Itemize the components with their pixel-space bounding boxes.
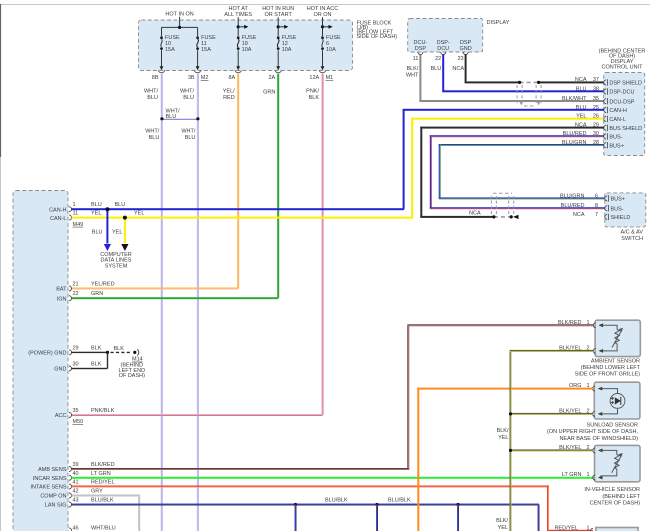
wire WHT/BLU from 8B (vertical)	[144, 74, 163, 531]
wire YEL CAN-L riser to DCU	[411, 118, 604, 219]
wire ORG sunload	[417, 388, 594, 531]
svg-text:BLK/: BLK/	[406, 66, 418, 72]
svg-text:22: 22	[73, 291, 79, 297]
pin 35 ACC	[55, 408, 115, 425]
svg-text:PNK/: PNK/	[306, 89, 319, 95]
svg-text:PNK/BLK: PNK/BLK	[91, 408, 115, 414]
svg-text:BLU: BLU	[92, 229, 103, 235]
svg-text:WHT/: WHT/	[180, 89, 195, 95]
sunload pin 1	[569, 383, 602, 391]
node HOT IN ACC OR ON	[307, 6, 338, 36]
svg-text:YEL: YEL	[134, 211, 144, 217]
wire YEL CAN-L	[72, 211, 413, 220]
in-vehicle thermistor	[600, 450, 622, 476]
fuse 6 10A	[309, 35, 341, 81]
svg-text:NCA: NCA	[573, 212, 585, 218]
svg-text:12A: 12A	[309, 75, 319, 81]
svg-text:7: 7	[595, 212, 598, 218]
wire LT GRN INCAR SENS to in-vehicle sensor	[72, 477, 594, 479]
svg-text:10A: 10A	[326, 47, 336, 53]
svg-text:BUS-: BUS-	[609, 135, 622, 141]
svg-text:BLK: BLK	[91, 362, 102, 368]
shield loop (A/C AV pair)	[491, 193, 513, 214]
svg-text:23: 23	[457, 56, 463, 62]
svg-text:42: 42	[73, 489, 79, 495]
svg-text:(ON UPPER RIGHT SIDE OF DASH,: (ON UPPER RIGHT SIDE OF DASH,	[547, 429, 638, 435]
svg-text:DCU-: DCU-	[414, 40, 428, 46]
svg-text:BLU/BLK: BLU/BLK	[388, 498, 411, 504]
pin DSP-DCU 22	[435, 40, 450, 62]
DCU pin 28 BUS+	[562, 140, 624, 149]
svg-text:21: 21	[73, 282, 79, 288]
svg-text:SIDE OF DASH): SIDE OF DASH)	[357, 34, 398, 40]
svg-text:1: 1	[586, 472, 589, 478]
svg-text:(BEHIND LEFT: (BEHIND LEFT	[602, 494, 640, 500]
svg-text:LT GRN: LT GRN	[91, 471, 111, 477]
svg-text:NEAR BASE OF WINDSHIELD): NEAR BASE OF WINDSHIELD)	[559, 436, 638, 442]
svg-text:BLU: BLU	[185, 135, 196, 141]
svg-text:INTAKE SENS: INTAKE SENS	[31, 485, 67, 491]
svg-text:WHT/: WHT/	[145, 129, 160, 135]
svg-text:10A: 10A	[282, 47, 292, 53]
svg-text:40: 40	[73, 471, 79, 477]
svg-text:DSP-DCU: DSP-DCU	[609, 90, 634, 96]
svg-text:1: 1	[73, 202, 76, 208]
pin DSP GND 23	[457, 40, 471, 62]
top border line	[0, 4, 650, 6]
DCU pin 37 DSP SHIELD	[575, 77, 642, 86]
svg-text:6: 6	[326, 41, 329, 47]
svg-text:2A: 2A	[268, 75, 275, 81]
svg-text:GRN: GRN	[91, 291, 103, 297]
svg-text:BLU: BLU	[149, 135, 160, 141]
ground M14	[119, 349, 146, 379]
svg-text:BLU: BLU	[115, 202, 126, 208]
pin 41 INTAKE SENS	[31, 480, 115, 491]
svg-text:RED/YEL: RED/YEL	[91, 480, 115, 486]
fuse 10 15A	[152, 35, 180, 81]
svg-text:BLK/WHT: BLK/WHT	[562, 96, 587, 102]
svg-text:3B: 3B	[188, 75, 195, 81]
svg-text:22: 22	[435, 56, 441, 62]
svg-text:WHT: WHT	[406, 73, 419, 79]
wire YEL drop to computer data lines	[112, 216, 129, 251]
svg-text:NCA: NCA	[469, 210, 481, 216]
svg-text:YEL: YEL	[498, 525, 508, 531]
left border light continuation	[0, 157, 1, 531]
svg-text:SWITCH: SWITCH	[621, 236, 643, 242]
DISPLAY CONTROL UNIT box	[604, 73, 645, 156]
svg-text:11: 11	[413, 56, 419, 62]
pin 43 LAN SIG	[45, 498, 114, 509]
svg-text:GND: GND	[54, 367, 66, 373]
svg-text:BLK: BLK	[309, 95, 320, 101]
svg-text:15A: 15A	[201, 47, 211, 53]
svg-text:DSP-: DSP-	[437, 40, 450, 46]
svg-text:HOT IN ON: HOT IN ON	[165, 12, 193, 18]
svg-text:BLU: BLU	[430, 66, 441, 72]
svg-text:DSP: DSP	[415, 46, 427, 52]
svg-text:DSP: DSP	[460, 40, 472, 46]
svg-text:BLK/: BLK/	[497, 428, 509, 434]
svg-text:DCU: DCU	[437, 46, 449, 52]
svg-text:A/C & AV: A/C & AV	[620, 229, 643, 235]
svg-text:CAN-H: CAN-H	[49, 207, 66, 213]
DCU pin 25 CAN-H	[576, 105, 627, 114]
svg-text:ALL TIMES: ALL TIMES	[224, 12, 252, 18]
DISPLAY box	[408, 19, 510, 53]
svg-text:GND: GND	[459, 46, 471, 52]
svg-text:12: 12	[282, 41, 288, 47]
svg-text:BUS+: BUS+	[609, 143, 624, 149]
node HOT IN ON	[162, 12, 198, 37]
svg-text:DSP SHIELD: DSP SHIELD	[609, 81, 642, 87]
svg-text:IGN: IGN	[57, 296, 67, 302]
ambient pin 1	[558, 320, 603, 328]
svg-text:YEL: YEL	[498, 435, 508, 441]
svg-text:38: 38	[593, 86, 599, 92]
svg-text:BLU: BLU	[166, 114, 177, 120]
DCU caption	[599, 48, 646, 70]
svg-text:DCU-DSP: DCU-DSP	[609, 99, 634, 105]
svg-text:35: 35	[73, 408, 79, 414]
svg-text:1: 1	[586, 526, 589, 531]
svg-text:41: 41	[73, 480, 79, 486]
pin 1 CAN-H connector	[49, 202, 75, 213]
svg-text:BLU: BLU	[147, 95, 158, 101]
intake pin 1	[554, 526, 593, 531]
wire NCA BUS SHIELD hairpin	[420, 127, 603, 218]
wire BLK pin29 to splice	[72, 346, 125, 354]
node HOT AT ALL TIMES	[224, 6, 252, 36]
DCU pin 26 CAN-L	[576, 114, 626, 123]
svg-text:BLK: BLK	[114, 346, 125, 352]
svg-text:BUS+: BUS+	[611, 197, 626, 203]
svg-text:37: 37	[593, 77, 599, 83]
svg-text:1: 1	[586, 320, 589, 326]
svg-text:CONTROL UNIT: CONTROL UNIT	[601, 64, 643, 70]
DCU pin 35 DCU-DSP	[562, 96, 635, 105]
svg-text:BLU/RED: BLU/RED	[561, 203, 585, 209]
svg-text:8A: 8A	[228, 75, 235, 81]
in-vehicle pin 2	[559, 445, 602, 453]
svg-text:BLU: BLU	[183, 95, 194, 101]
fuse 19 10A	[228, 35, 256, 81]
svg-text:OR ON: OR ON	[313, 12, 331, 18]
A/C AV pin 8 BUS-	[561, 203, 624, 212]
wire NCA DSP GND shield drain	[452, 55, 603, 85]
fuse block (J/B) box	[139, 20, 353, 71]
svg-text:BLU/GRN: BLU/GRN	[560, 193, 584, 199]
wire BLK/YEL to sunload pin 2 + junction	[509, 412, 593, 415]
pin 30 GND	[54, 362, 101, 373]
DCU pin 30 BUS-	[563, 131, 623, 140]
svg-text:OR START: OR START	[265, 12, 293, 18]
svg-text:BLK/RED: BLK/RED	[558, 320, 582, 326]
ambient sensor caption	[575, 358, 641, 377]
pin 29 (POWER) GND	[28, 345, 101, 356]
svg-text:30: 30	[73, 362, 79, 368]
svg-text:(BEHIND LOWER LEFT: (BEHIND LOWER LEFT	[581, 365, 641, 371]
sunload photodiode	[601, 389, 625, 414]
A/C AV pin 6 BUS+	[560, 193, 625, 202]
wire BLU/RED BUS- hairpin	[430, 135, 605, 209]
svg-text:BLK/RED: BLK/RED	[91, 462, 115, 468]
svg-text:RED: RED	[223, 95, 235, 101]
svg-text:(POWER) GND: (POWER) GND	[28, 351, 66, 357]
svg-text:LT GRN: LT GRN	[562, 472, 582, 478]
svg-text:BAT: BAT	[56, 287, 67, 293]
svg-text:YEL: YEL	[91, 211, 101, 217]
svg-text:WHT/: WHT/	[144, 89, 159, 95]
junction + stub LAN SIG 1	[294, 503, 297, 531]
svg-text:BLU/BLK: BLU/BLK	[91, 498, 114, 504]
pin DCU-DSP 11	[413, 40, 428, 62]
svg-text:FUSE: FUSE	[201, 35, 216, 41]
svg-text:INCAR SENS: INCAR SENS	[33, 476, 67, 482]
svg-text:FUSE: FUSE	[165, 35, 180, 41]
in-vehicle sensor box	[595, 445, 641, 481]
pin 46 WHT/BLU (cut at bottom)	[69, 526, 116, 531]
wire GRN from 2A to IGN	[72, 74, 280, 300]
svg-text:YEL: YEL	[112, 229, 122, 235]
ambient sensor box	[595, 320, 640, 356]
svg-text:LAN SIG: LAN SIG	[45, 503, 67, 509]
wire BLK dashed to ground M14	[111, 351, 132, 353]
svg-text:WHT/: WHT/	[181, 129, 196, 135]
ambient pin 2	[559, 345, 603, 353]
wire RED/YEL INTAKE SENS to intake sensor	[72, 486, 594, 531]
left border bar	[0, 4, 1, 157]
sunload caption	[547, 422, 638, 441]
svg-text:FUSE: FUSE	[326, 35, 341, 41]
wire BLU/GRN BUS+ hairpin	[439, 144, 605, 199]
wire BLU/BLK LAN SIG	[72, 498, 540, 531]
svg-text:CAN-L: CAN-L	[609, 117, 626, 123]
wire YEL/RED from 8A to BAT	[72, 74, 240, 290]
svg-text:39: 39	[73, 462, 79, 468]
wire WHT/BLU from 3B (vertical)	[180, 74, 199, 531]
svg-text:BLU/BLK: BLU/BLK	[325, 498, 348, 504]
sunload pin 2	[559, 408, 602, 416]
svg-text:GRY: GRY	[91, 489, 103, 495]
svg-text:8: 8	[595, 203, 598, 209]
node COMPUTER DATA LINES SYSTEM	[100, 252, 132, 269]
shield drain NCA to A/C AV switch	[492, 215, 518, 219]
wire BLU CAN-H	[72, 202, 405, 211]
pin 40 INCAR SENS	[33, 471, 111, 482]
junction + stub LAN SIG 2	[375, 503, 378, 531]
svg-text:CAN-H: CAN-H	[609, 108, 626, 114]
DCU pin 29 BUS SHIELD	[575, 123, 642, 132]
svg-text:YEL/: YEL/	[223, 89, 235, 95]
pin 21 BAT	[56, 282, 114, 293]
pin 42 COMP ON	[40, 489, 103, 500]
svg-text:NCA: NCA	[575, 77, 587, 83]
svg-text:M2: M2	[201, 75, 209, 81]
svg-text:6: 6	[595, 193, 598, 199]
in-vehicle caption	[584, 487, 640, 506]
in-vehicle pin 1	[562, 472, 603, 480]
svg-text:M1: M1	[326, 75, 334, 81]
svg-text:SYSTEM: SYSTEM	[105, 263, 128, 269]
svg-text:10A: 10A	[242, 47, 252, 53]
svg-text:GRN: GRN	[263, 90, 275, 96]
svg-text:11: 11	[201, 41, 207, 47]
svg-text:BLU: BLU	[91, 202, 102, 208]
svg-text:11: 11	[73, 211, 79, 217]
wire PNK/BLK from 12A to ACC	[72, 74, 324, 417]
wire BLK/YEL to in-vehicle pin 2 + junction	[509, 449, 593, 452]
svg-text:CENTER OF DASH): CENTER OF DASH)	[590, 501, 641, 507]
svg-text:SIDE OF FRONT GRILLE): SIDE OF FRONT GRILLE)	[575, 372, 640, 378]
svg-text:WHT/BLU: WHT/BLU	[91, 526, 116, 531]
fuse block caption	[357, 20, 398, 40]
svg-text:COMP ON: COMP ON	[40, 494, 66, 500]
svg-text:19: 19	[242, 41, 248, 47]
svg-text:CAN-L: CAN-L	[50, 216, 67, 222]
svg-text:15A: 15A	[165, 47, 175, 53]
svg-text:AMB SENS: AMB SENS	[38, 467, 67, 473]
wire BLU drop to computer data lines	[92, 207, 111, 251]
svg-text:43: 43	[73, 498, 79, 504]
wire BLK pin30 up to splice	[72, 352, 109, 369]
fuse 11 15A	[188, 35, 216, 81]
wire WHT/BLU crossbar + junctions	[145, 108, 199, 141]
fuse 12 10A	[268, 35, 296, 81]
wire BLK/YEL trunk vertical	[496, 351, 511, 531]
svg-text:BUS-: BUS-	[611, 206, 624, 212]
svg-text:SHIELD: SHIELD	[611, 215, 631, 221]
A/C & AV SWITCH box	[605, 193, 646, 242]
svg-text:DISPLAY: DISPLAY	[487, 20, 510, 26]
svg-text:FUSE: FUSE	[282, 35, 297, 41]
wire BLU DSP-DCU	[430, 55, 603, 93]
svg-text:29: 29	[73, 345, 79, 351]
svg-text:OF DASH): OF DASH)	[119, 373, 145, 379]
svg-text:FUSE: FUSE	[242, 35, 257, 41]
svg-text:10: 10	[165, 41, 171, 47]
svg-text:BLK: BLK	[91, 345, 102, 351]
svg-text:BUS SHIELD: BUS SHIELD	[609, 126, 642, 132]
ambient thermistor	[601, 325, 623, 351]
wire GRY COMP ON	[72, 495, 141, 531]
wire BLK/YEL to ambient pin 2	[510, 350, 594, 352]
wire BLK/WHT DCU-DSP	[406, 55, 604, 103]
svg-text:NCA: NCA	[452, 66, 464, 72]
DCU pin 38 DSP-DCU	[576, 86, 635, 95]
svg-text:SUNLOAD SENSOR: SUNLOAD SENSOR	[587, 422, 638, 428]
A/C AV pin 7 SHIELD	[573, 212, 631, 221]
svg-text:RED/YEL: RED/YEL	[554, 526, 578, 531]
svg-text:8B: 8B	[152, 75, 159, 81]
wire BLK/RED AMB SENS to ambient sensor	[72, 324, 594, 470]
pin 39 AMB SENS	[38, 462, 115, 473]
svg-text:YEL/RED: YEL/RED	[91, 282, 115, 288]
svg-text:BLU: BLU	[576, 86, 587, 92]
sunload sensor box	[594, 382, 640, 419]
pin 11 CAN-L connector	[50, 211, 83, 228]
A/C auto amp box (left, cut off)	[13, 191, 68, 531]
svg-text:AMBIENT SENSOR: AMBIENT SENSOR	[591, 358, 640, 364]
shield loop (display pair)	[517, 85, 541, 106]
svg-text:IN-VEHICLE SENSOR: IN-VEHICLE SENSOR	[584, 487, 640, 493]
node HOT IN RUN OR START	[262, 6, 294, 36]
svg-text:M49: M49	[73, 222, 84, 228]
pin 22 IGN	[57, 291, 104, 302]
intake sensor box (cut at bottom)	[596, 528, 638, 531]
junction + stub LAN SIG 3	[456, 503, 459, 531]
svg-text:35: 35	[593, 96, 599, 102]
svg-text:M50: M50	[73, 419, 84, 425]
wire BLU CAN-H riser to DCU	[403, 109, 604, 209]
svg-text:BLK/: BLK/	[496, 518, 508, 524]
svg-text:46: 46	[73, 526, 79, 531]
svg-text:ACC: ACC	[55, 413, 67, 419]
